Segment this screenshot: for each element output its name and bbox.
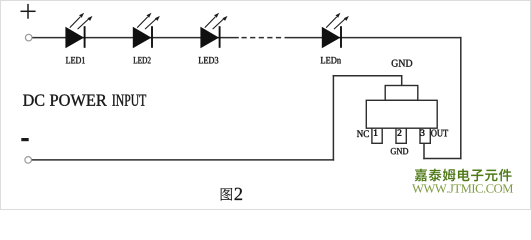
LED LED3 [200, 13, 227, 48]
wire: dashed continuation (more LEDs) [242, 37, 288, 39]
LED LED2 [133, 13, 160, 48]
caption: figure label 图2 [221, 188, 242, 201]
pin 2 number [398, 130, 402, 136]
wire: LEDn cathode to top-right corner [287, 37, 462, 39]
wire: - terminal bottom rail [32, 159, 334, 161]
pin 1 number [374, 130, 377, 136]
LED LEDn [322, 13, 349, 48]
LED LED1 [65, 13, 92, 48]
wire: drop into GND tab of U1 [401, 75, 403, 86]
watermark: WWW.JTMIC.COM [412, 184, 513, 193]
wire: riser up to OUT pin 3 of U1 [423, 143, 425, 159]
wire: GND return horizontal run [333, 75, 403, 77]
label LED3 [199, 57, 219, 64]
wire: bottom-right horizontal into OUT riser [423, 158, 461, 160]
wire: left riser of GND return [332, 75, 334, 161]
pin 3 number [421, 130, 425, 136]
pin label GND (pin 2, bottom) [391, 148, 408, 154]
label LEDn [321, 57, 341, 63]
plus symbol (positive supply marking) [21, 4, 36, 19]
terminal: + input (open circle) [25, 34, 32, 41]
wire: + terminal through LED1..LED3 [32, 37, 238, 39]
watermark: 嘉泰姆电子元件 [415, 169, 512, 182]
text: DC POWER INPUT [23, 94, 146, 106]
wire: right rail (top-right corner down to bottom corner) [460, 37, 462, 159]
label LED2 [133, 57, 150, 64]
node GND (tab net label) [392, 60, 413, 67]
terminal: - input (open circle) [25, 157, 32, 164]
regulator U1 (SOT-89 package: GND tab + 3 pins) [366, 86, 437, 144]
minus symbol (negative supply marking) [21, 138, 28, 141]
pin label NC (pin 1) [357, 130, 369, 137]
label LED1 [66, 57, 85, 63]
pin label OUT (pin 3) [431, 130, 448, 137]
